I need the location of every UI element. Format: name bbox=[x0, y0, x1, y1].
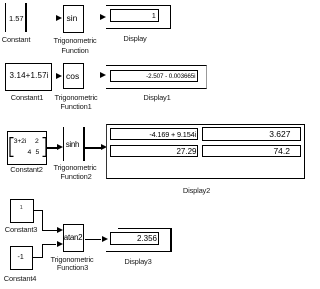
matrix right bracket bbox=[42, 137, 47, 157]
constant Constant4 box bbox=[10, 246, 33, 270]
display Display outer frame (no left edge) bbox=[106, 5, 172, 29]
display Display2 value 74.2 bbox=[273, 146, 290, 156]
block name Trigonometric Function1 line1 bbox=[55, 93, 98, 102]
display Display2 value 27.29 bbox=[176, 147, 196, 156]
block name Constant2 bbox=[10, 165, 42, 174]
display Display1 value bbox=[146, 73, 195, 80]
block name Trigonometric Function line2 bbox=[61, 46, 88, 55]
block name Trigonometric Function3 line2 bbox=[57, 263, 88, 272]
wire Constant4 to atan2: horizontal out bbox=[33, 257, 43, 258]
wire Constant2 to Trigonometric Function2 bbox=[47, 147, 58, 148]
wire arrowhead into Trigonometric Function1 bbox=[56, 73, 62, 79]
atan2 text bbox=[64, 233, 83, 242]
trig function atan2 block bbox=[63, 224, 84, 252]
block name Trigonometric Function line1 bbox=[54, 36, 97, 45]
constant Constant2 box bbox=[7, 131, 47, 165]
wire arrowhead into Display1 bbox=[100, 72, 106, 78]
constant Constant1 box bbox=[5, 63, 52, 91]
matrix row1: 3+2i 2 bbox=[14, 138, 26, 145]
block name Display1 bbox=[143, 93, 170, 102]
wire atan2 to Display3 bbox=[85, 239, 101, 240]
display Display1 outer frame (no left edge) bbox=[106, 65, 207, 89]
block name Constant3 bbox=[5, 225, 37, 234]
wire Constant3 to atan2: horizontal out bbox=[34, 210, 43, 211]
block name Display3 bbox=[124, 257, 151, 266]
matrix left bracket bbox=[9, 137, 14, 157]
trig function sinh block right edge bbox=[83, 127, 84, 161]
wire vertical down bbox=[42, 210, 43, 232]
constant Constant3 box bbox=[10, 199, 34, 223]
display Display2 inner box top-left bbox=[110, 128, 198, 141]
block name Display2 bbox=[183, 186, 210, 195]
arrowhead into Display2 bbox=[101, 144, 107, 150]
block name Trigonometric Function3 line1 bbox=[51, 255, 94, 264]
block name Display bbox=[123, 34, 146, 43]
display Display3 outer frame right edge bbox=[170, 228, 171, 252]
wire horizontal into atan2 input2 bbox=[42, 244, 56, 245]
arrowhead into atan2 input2 bbox=[57, 241, 63, 247]
display Display2 value 3.627 bbox=[269, 129, 290, 139]
display Display2 value -4.169 + 9.154i bbox=[149, 130, 196, 139]
arrowhead into atan2 input1 bbox=[57, 227, 63, 233]
wire vertical up bbox=[42, 244, 43, 259]
value 3.14+1.57i bbox=[10, 71, 49, 80]
cos text bbox=[66, 71, 79, 81]
matrix row2: 4 5 bbox=[28, 149, 32, 156]
wire sinh to Display2 bbox=[85, 147, 102, 148]
sin text bbox=[67, 13, 78, 23]
trig function sinh block left edge bbox=[63, 127, 64, 161]
arrowhead into Trigonometric Function2 bbox=[57, 144, 63, 150]
sinh text bbox=[66, 140, 79, 149]
block name Trigonometric Function1 line2 bbox=[60, 102, 91, 111]
block name Trigonometric Function2 line2 bbox=[60, 172, 91, 181]
display Display inner value box bbox=[110, 9, 159, 22]
display Display2 inner box top-right bbox=[202, 127, 301, 140]
block name Trigonometric Function2 line1 bbox=[54, 163, 97, 172]
display Display2 outer frame bbox=[106, 124, 305, 179]
value label 1.57 bbox=[9, 14, 24, 23]
display Display2 inner box bottom-left bbox=[110, 145, 198, 157]
arrowhead into Display3 bbox=[102, 236, 108, 242]
constant Constant right edge bbox=[25, 3, 26, 32]
display Display value 1 bbox=[152, 13, 156, 20]
constant Constant (value 1.57) left edge bbox=[5, 3, 6, 32]
wire arrowhead into Trigonometric Function bbox=[56, 15, 62, 21]
display Display1 inner value box bbox=[110, 70, 198, 82]
block name Constant bbox=[2, 35, 30, 44]
display Display3 inner value box bbox=[110, 232, 159, 245]
display Display3 outer frame bottom line bbox=[106, 251, 172, 252]
display Display2 inner box bottom-right bbox=[202, 145, 301, 157]
value 1 (tiny) bbox=[20, 205, 23, 211]
display Display3 value 2.356 bbox=[137, 234, 157, 243]
wire horizontal into atan2 input1 bbox=[42, 230, 57, 231]
block name Constant1 bbox=[11, 93, 43, 102]
display Display3 outer frame top line bbox=[118, 228, 172, 229]
wire arrowhead into Display bbox=[100, 14, 106, 20]
value -1 bbox=[18, 254, 24, 261]
trig function U sin block bbox=[63, 5, 84, 33]
trig function cos block bbox=[63, 63, 84, 90]
block name Constant4 bbox=[4, 274, 36, 283]
